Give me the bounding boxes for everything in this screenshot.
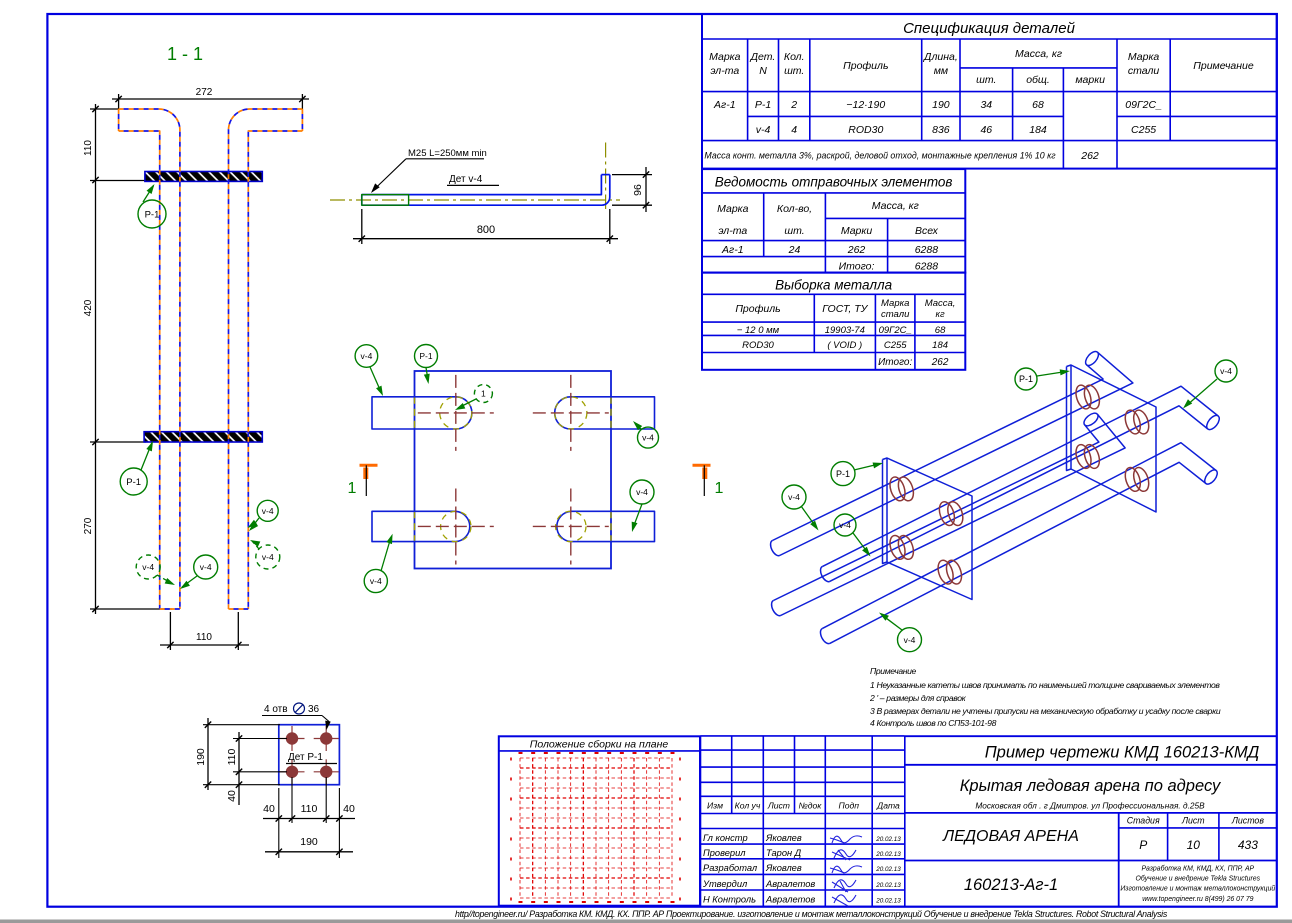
- anchor rods v-4 (iso): [780, 352, 1133, 555]
- svg-text:20.02.13: 20.02.13: [875, 882, 901, 889]
- svg-text:Всех: Всех: [915, 225, 939, 237]
- svg-text:Длина,: Длина,: [923, 51, 958, 63]
- dimension 96: [612, 174, 652, 176]
- svg-text:96: 96: [632, 184, 644, 196]
- svg-text:20.02.13: 20.02.13: [875, 897, 901, 904]
- svg-text:190: 190: [932, 99, 950, 111]
- svg-text:2 ' – размеры для справок: 2 ' – размеры для справок: [869, 693, 967, 703]
- svg-text:40: 40: [343, 803, 355, 815]
- plate P-1 right (iso): [1071, 365, 1156, 512]
- svg-text:6288: 6288: [915, 261, 939, 273]
- svg-text:стали: стали: [1128, 65, 1160, 77]
- svg-text:270: 270: [83, 517, 94, 534]
- svg-text:Дет Р-1: Дет Р-1: [288, 752, 323, 763]
- section marker 1 right: [693, 464, 711, 467]
- svg-text:110: 110: [196, 632, 212, 643]
- svg-text:1: 1: [481, 389, 486, 399]
- anchor rod v-4 left (section, dashed): [119, 109, 180, 609]
- plate P-1 left (iso): [887, 458, 972, 600]
- svg-text:ЛЕДОВАЯ АРЕНА: ЛЕДОВАЯ АРЕНА: [942, 828, 1079, 845]
- svg-text:v-4: v-4: [142, 562, 154, 572]
- svg-text:Лист: Лист: [767, 801, 790, 811]
- svg-text:09Г2С_: 09Г2С_: [879, 325, 912, 336]
- Det P-1 plate: [279, 725, 340, 785]
- svg-text:Яковлев: Яковлев: [765, 863, 802, 873]
- svg-text:ГОСТ, ТУ: ГОСТ, ТУ: [822, 303, 868, 315]
- label v-4 bottom pair: [182, 576, 197, 587]
- base plate P-1 upper (hatched): [145, 172, 262, 182]
- svg-text:110: 110: [226, 748, 238, 765]
- base plate P-1 lower (hatched): [144, 432, 262, 442]
- svg-text:кг: кг: [936, 309, 945, 320]
- svg-text:110: 110: [301, 803, 318, 815]
- svg-text:v-4: v-4: [262, 506, 274, 516]
- dimension 272: [118, 94, 120, 109]
- svg-text:40: 40: [226, 790, 238, 802]
- svg-text:шт.: шт.: [784, 65, 804, 77]
- svg-text:Листов: Листов: [1231, 816, 1264, 826]
- svg-text:ROD30: ROD30: [848, 124, 883, 136]
- svg-text:184: 184: [932, 340, 948, 351]
- title block main cells: [905, 735, 1277, 737]
- title block revision table: [701, 735, 905, 737]
- svg-text:1: 1: [715, 480, 724, 497]
- rod v-4 plan top-left: [372, 397, 472, 429]
- svg-text:20.02.13: 20.02.13: [875, 851, 901, 858]
- svg-text:шт.: шт.: [784, 225, 804, 237]
- svg-text:v-4: v-4: [636, 487, 648, 497]
- specification table: [702, 14, 1277, 169]
- svg-text:Проверил: Проверил: [703, 848, 746, 858]
- centerline detail v-4: [330, 199, 620, 201]
- svg-text:1 Неуказанные катеты швов при: 1 Неуказанные катеты швов принимать по н…: [870, 680, 1220, 690]
- svg-text:36: 36: [308, 704, 320, 715]
- svg-text:v-4: v-4: [788, 492, 800, 502]
- svg-text:Итого:: Итого:: [878, 357, 912, 368]
- svg-text:Масса, кг: Масса, кг: [872, 200, 919, 212]
- svg-text:Марка: Марка: [709, 51, 741, 63]
- thread zone (green): [362, 195, 409, 206]
- svg-text:Масса конт. металла 3%, раскро: Масса конт. металла 3%, раскрой, деловой…: [704, 151, 1056, 161]
- svg-text:68: 68: [1032, 99, 1044, 111]
- svg-text:Профиль: Профиль: [735, 303, 780, 315]
- svg-text:Гл констр: Гл констр: [703, 833, 748, 843]
- iso labels: [1037, 372, 1066, 377]
- dim 40 left: [236, 782, 242, 788]
- svg-text:Яковлев: Яковлев: [765, 833, 802, 843]
- svg-text:v-4: v-4: [1220, 366, 1232, 376]
- bottom dims 40 110 40: [278, 788, 280, 858]
- svg-text:68: 68: [935, 325, 946, 336]
- svg-text:Примечание: Примечание: [1193, 60, 1254, 72]
- svg-text:3 В размерах детали не учтены: 3 В размерах детали не учтены припуски н…: [870, 706, 1221, 716]
- svg-text:24: 24: [788, 244, 801, 256]
- svg-text:Марка: Марка: [881, 298, 909, 309]
- svg-text:262: 262: [1080, 150, 1099, 162]
- svg-text:Пример чертежи КМД 160213-КМД: Пример чертежи КМД 160213-КМД: [985, 744, 1260, 762]
- rod detail v-4 outline: [362, 175, 602, 195]
- svg-text:мм: мм: [934, 65, 948, 77]
- svg-text:M25 L=250мм min: M25 L=250мм min: [408, 148, 487, 159]
- hidden plate edges (dashed): [414, 397, 416, 429]
- shipping elements table: [702, 169, 965, 273]
- svg-text:Аг-1: Аг-1: [721, 244, 744, 256]
- svg-text:эл-та: эл-та: [710, 65, 739, 77]
- svg-text:Разработка КМ, КМД, КХ, ППР, А: Разработка КМ, КМД, КХ, ППР, АР: [1141, 865, 1254, 873]
- svg-text:Крытая ледовая арена по адресу: Крытая ледовая арена по адресу: [960, 777, 1222, 795]
- assembly position box: [499, 736, 700, 905]
- svg-text:20.02.13: 20.02.13: [875, 866, 901, 873]
- svg-text:Обучение и внедрение Tekla St: Обучение и внедрение Tekla Structures: [1136, 875, 1261, 883]
- weld rings (iso): [887, 475, 908, 503]
- svg-text:v-4: v-4: [756, 124, 771, 136]
- svg-text:34: 34: [980, 99, 992, 111]
- holes with crosshairs: [440, 397, 472, 429]
- svg-text:шт.: шт.: [976, 74, 996, 86]
- label P-1 upper: [143, 186, 154, 203]
- svg-text:420: 420: [83, 299, 94, 316]
- svg-text:Марка: Марка: [1128, 51, 1160, 63]
- svg-text:Ведомость отправочных элементо: Ведомость отправочных элементов: [715, 175, 953, 190]
- svg-text:v-4: v-4: [904, 635, 916, 645]
- svg-text:Кол.: Кол.: [784, 51, 805, 63]
- plate P-1 plan: [415, 371, 612, 569]
- svg-text:v-4: v-4: [262, 552, 274, 562]
- dim 190 left: [207, 718, 209, 790]
- svg-text:Выборка металла: Выборка металла: [775, 278, 892, 293]
- svg-text:эл-та: эл-та: [718, 225, 747, 237]
- label P-1 lower: [141, 443, 152, 471]
- svg-text:Московская обл . г Дмитров. у: Московская обл . г Дмитров. ул Профессио…: [975, 801, 1205, 811]
- svg-text:−12·190: −12·190: [846, 99, 885, 111]
- svg-text:v-4: v-4: [642, 433, 654, 443]
- svg-text:20.02.13: 20.02.13: [875, 836, 901, 843]
- svg-text:v-4: v-4: [360, 351, 372, 361]
- svg-text:v-4: v-4: [839, 520, 851, 530]
- svg-text:№док: №док: [798, 801, 822, 811]
- rod v-4 plan bottom-right: [557, 511, 655, 541]
- window bottom bar: [0, 920, 1292, 923]
- dim 110 left: [238, 732, 240, 805]
- svg-text:Кол-во,: Кол-во,: [777, 203, 812, 215]
- svg-text:С255: С255: [884, 340, 907, 351]
- svg-text:Р-1: Р-1: [755, 99, 771, 111]
- svg-text:Разработал: Разработал: [703, 863, 758, 873]
- svg-text:4: 4: [791, 124, 797, 136]
- svg-text:09Г2С_: 09Г2С_: [1125, 99, 1162, 111]
- dim 190 bottom: [265, 851, 353, 853]
- svg-text:190: 190: [300, 836, 318, 848]
- bolt holes: [286, 733, 297, 744]
- svg-text:Положение сборки на плане: Положение сборки на плане: [530, 739, 669, 751]
- svg-text:марки: марки: [1075, 74, 1105, 86]
- svg-text:стали: стали: [881, 309, 910, 320]
- svg-text:( VOID ): ( VOID ): [827, 340, 862, 351]
- svg-text:Дет.: Дет.: [750, 51, 776, 63]
- svg-text:190: 190: [195, 748, 207, 766]
- svg-text:46: 46: [980, 124, 992, 136]
- svg-text:Итого:: Итого:: [839, 261, 875, 273]
- svg-text:С255: С255: [1131, 124, 1156, 136]
- svg-text:Масса,: Масса,: [925, 298, 956, 309]
- svg-text:262: 262: [847, 244, 866, 256]
- svg-text:Профиль: Профиль: [843, 60, 888, 72]
- svg-text:Дет v-4: Дет v-4: [449, 174, 483, 185]
- left dimension chain 110/420/270: [95, 104, 97, 614]
- bottom dimension 110: [169, 612, 171, 650]
- svg-text:P-1: P-1: [1019, 374, 1033, 384]
- svg-text:Лист: Лист: [1181, 816, 1205, 826]
- rod v-4 plan bottom-left: [372, 511, 470, 541]
- svg-text:Утвердил: Утвердил: [702, 879, 748, 889]
- svg-text:433: 433: [1238, 838, 1258, 852]
- svg-text:www.topengineer.ru 8(: www.topengineer.ru 8(499) 26 07 79: [1142, 896, 1253, 903]
- svg-text:Аг-1: Аг-1: [713, 99, 736, 111]
- svg-text:Авралетов: Авралетов: [765, 879, 815, 889]
- red position grid: [519, 758, 521, 898]
- svg-text:P-1: P-1: [419, 351, 433, 361]
- svg-text:Дата: Дата: [876, 801, 900, 811]
- svg-text:110: 110: [83, 140, 94, 156]
- dimension 800: [361, 209, 363, 244]
- svg-text:4 Контроль швов по СП53-101-9: 4 Контроль швов по СП53-101-98: [870, 718, 997, 728]
- svg-text:ROD30: ROD30: [742, 340, 774, 351]
- svg-text:общ.: общ.: [1026, 74, 1050, 86]
- section marker 1 left: [360, 464, 378, 467]
- svg-text:Масса, кг: Масса, кг: [1015, 48, 1062, 60]
- svg-text:Спецификация деталей: Спецификация деталей: [903, 20, 1076, 37]
- svg-text:6288: 6288: [915, 244, 939, 256]
- svg-text:19903-74: 19903-74: [825, 325, 865, 336]
- svg-text:Стадия: Стадия: [1127, 816, 1160, 826]
- metal selection table: [702, 273, 965, 370]
- svg-text:v-4: v-4: [370, 576, 382, 586]
- svg-text:Кол уч: Кол уч: [735, 801, 761, 811]
- svg-text:Марки: Марки: [841, 225, 873, 237]
- svg-text:Изготовление и монтаж металлок: Изготовление и монтаж металлоконструкций: [1120, 885, 1275, 893]
- svg-text:2: 2: [790, 99, 797, 111]
- rod v-4 plan top-right: [555, 397, 655, 429]
- plan labels: [370, 367, 381, 392]
- svg-text:1 - 1: 1 - 1: [167, 44, 203, 64]
- svg-text:N: N: [759, 65, 767, 77]
- svg-text:Р: Р: [1139, 838, 1147, 852]
- svg-text:40: 40: [263, 803, 275, 815]
- svg-text:262: 262: [931, 357, 949, 368]
- svg-text:4 отв: 4 отв: [264, 704, 288, 715]
- svg-text:836: 836: [932, 124, 950, 136]
- signatures (blue scribbles): [830, 836, 862, 843]
- svg-text:272: 272: [196, 87, 213, 98]
- svg-text:1: 1: [348, 480, 357, 497]
- svg-text:Марка: Марка: [717, 203, 749, 215]
- svg-text:184: 184: [1029, 124, 1047, 136]
- svg-text:Н Контроль: Н Контроль: [703, 894, 756, 904]
- svg-text:160213-Аг-1: 160213-Аг-1: [964, 876, 1058, 894]
- svg-text:P-1: P-1: [836, 469, 850, 479]
- label v-4 right pair: [251, 518, 260, 529]
- svg-text:10: 10: [1187, 838, 1201, 852]
- svg-text:800: 800: [477, 224, 495, 236]
- svg-text:P-1: P-1: [126, 477, 141, 488]
- svg-text:Подп: Подп: [839, 801, 860, 811]
- svg-text:v-4: v-4: [200, 562, 212, 572]
- svg-text:Примечание: Примечание: [870, 666, 917, 676]
- svg-text:P-1: P-1: [145, 209, 160, 220]
- svg-text:Авралетов: Авралетов: [765, 894, 815, 904]
- svg-text:http//topengineer.ru/ Разрабо: http//topengineer.ru/ Разработка КМ. КМД…: [455, 909, 1168, 919]
- svg-text:Изм: Изм: [707, 801, 723, 811]
- svg-text:− 12 0 мм: − 12 0 мм: [737, 325, 780, 336]
- svg-text:Тарон Д: Тарон Д: [766, 848, 802, 858]
